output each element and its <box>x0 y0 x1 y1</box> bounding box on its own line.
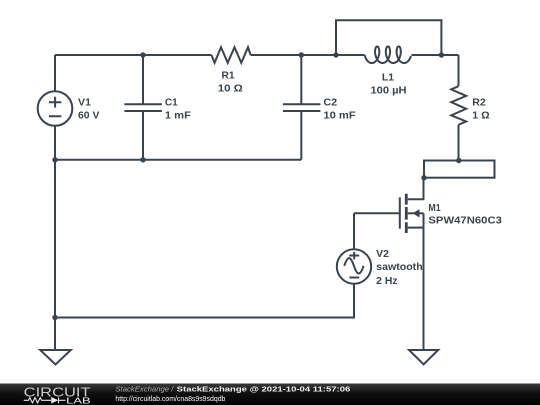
svg-text:R2: R2 <box>472 97 486 108</box>
svg-text:SPW47N60C3: SPW47N60C3 <box>428 216 502 227</box>
svg-text:1 Ω: 1 Ω <box>472 111 489 122</box>
svg-text:V2: V2 <box>376 249 389 260</box>
svg-text:StackExchange /: StackExchange / <box>115 384 174 393</box>
svg-text:60 V: 60 V <box>78 110 100 121</box>
svg-text:V1: V1 <box>78 98 91 109</box>
svg-text:LAB: LAB <box>66 395 91 405</box>
svg-text:M1: M1 <box>428 203 441 214</box>
svg-text:10 Ω: 10 Ω <box>218 84 243 95</box>
svg-text:sawtooth: sawtooth <box>376 262 423 273</box>
svg-text:C1: C1 <box>165 98 178 109</box>
svg-text:R1: R1 <box>221 71 234 82</box>
svg-text:2 Hz: 2 Hz <box>376 276 397 287</box>
svg-text:1 mF: 1 mF <box>165 110 191 121</box>
svg-text:L1: L1 <box>382 73 395 84</box>
svg-text:StackExchange @ 2021-10-04 11:: StackExchange @ 2021-10-04 11:57:06 <box>177 384 351 393</box>
svg-text:10 mF: 10 mF <box>323 110 355 121</box>
svg-text:100 µH: 100 µH <box>371 85 407 96</box>
svg-text:http://circuitlab.com/cna8s9s9: http://circuitlab.com/cna8s9s9sdqdb <box>115 394 225 403</box>
svg-text:C2: C2 <box>323 98 337 109</box>
